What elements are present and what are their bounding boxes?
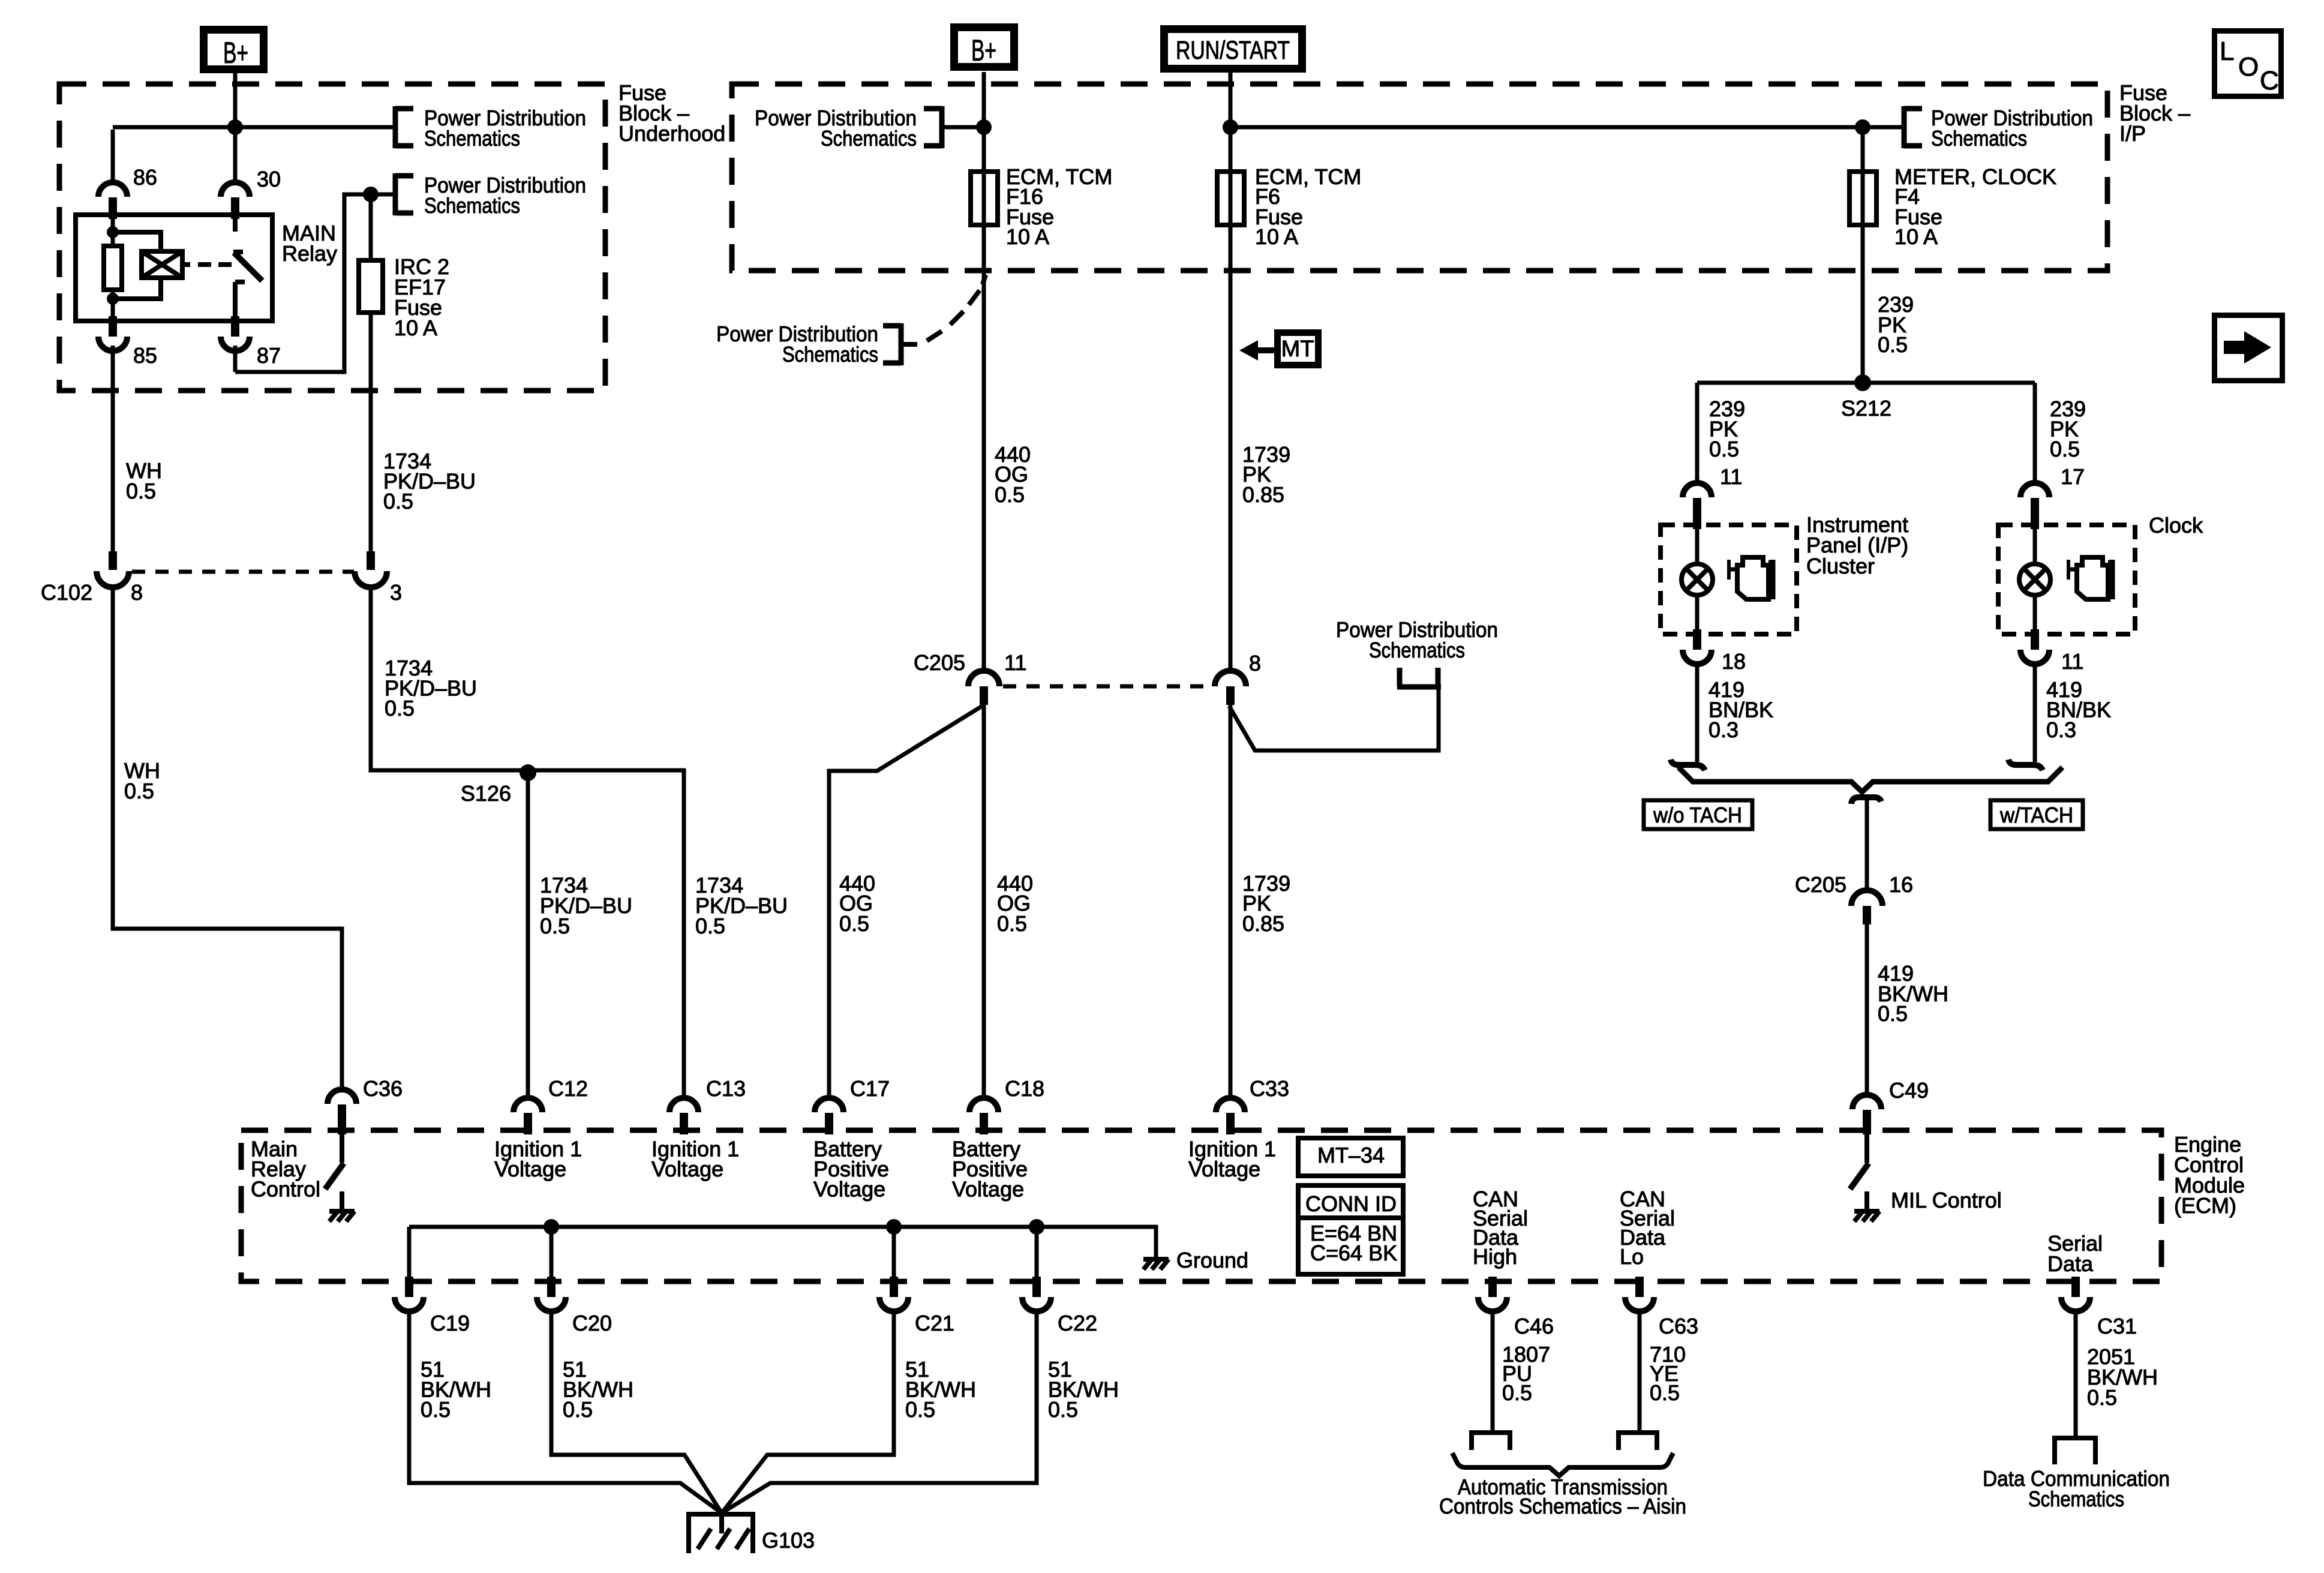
box MT-34 — [1298, 1138, 1403, 1176]
junction dot RUN/START — [1223, 119, 1238, 135]
terminal C18 — [969, 1098, 998, 1112]
terminal 11 into cluster — [1683, 483, 1712, 497]
svg-text:w/o TACH: w/o TACH — [1653, 803, 1742, 827]
svg-text:0.5: 0.5 — [1502, 1380, 1532, 1405]
power feed box B+ (I/P) — [954, 28, 1014, 67]
svg-text:Underhood: Underhood — [618, 121, 725, 146]
svg-text:Schematics: Schematics — [1369, 638, 1465, 662]
terminal C12 — [526, 1089, 530, 1098]
terminal 17 into clock — [2020, 483, 2049, 497]
svg-text:0.5: 0.5 — [1878, 1001, 1908, 1026]
bracket Power Distribution Schematics (down-facing) — [1397, 668, 1441, 687]
svg-text:C12: C12 — [548, 1076, 588, 1101]
relay coil — [111, 215, 115, 232]
wire to fuse F4 — [1861, 127, 1865, 383]
svg-text:Cluster: Cluster — [1806, 554, 1875, 578]
wire C102-8 down to ECM C36 — [113, 584, 342, 1089]
wire bracket to B+ wire — [942, 125, 984, 130]
svg-text:CONN ID: CONN ID — [1305, 1191, 1397, 1216]
terminal C36 — [328, 1089, 356, 1104]
bracket Power Distribution Schematics (underhood lower) — [393, 173, 398, 215]
wire S212 horizontal — [1697, 381, 2035, 385]
LOC reference box — [2215, 31, 2281, 97]
wire C205-11 to C18 — [982, 705, 986, 1098]
wire RUN/START through fuse F6 to C205-8 — [1229, 72, 1233, 671]
ground symbol (ECM internal) — [1143, 1259, 1169, 1269]
relay mechanical link dashes — [198, 262, 211, 267]
svg-text:0.5: 0.5 — [2087, 1385, 2117, 1410]
svg-text:Controls Schematics – Aisin: Controls Schematics – Aisin — [1439, 1494, 1686, 1518]
svg-text:Voltage: Voltage — [651, 1157, 723, 1181]
svg-text:11: 11 — [1720, 464, 1742, 489]
brace automatic transmission — [1452, 1453, 1673, 1476]
branch C19 — [407, 1227, 412, 1277]
wire brace to C205-16 — [1851, 797, 1881, 804]
wire 3 to S126 — [371, 584, 684, 1098]
bracket Power Distribution Schematics (below F16) — [899, 323, 904, 365]
wire C63 down — [1638, 1311, 1642, 1431]
engine icon MIL (cluster) — [1729, 557, 1773, 599]
box CONN ID — [1298, 1185, 1403, 1274]
svg-text:S126: S126 — [461, 781, 511, 806]
svg-text:B+: B+ — [971, 34, 996, 67]
svg-text:L: L — [2220, 37, 2234, 66]
switch MIL control — [1864, 1134, 1869, 1163]
svg-text:0.5: 0.5 — [1650, 1380, 1680, 1405]
svg-text:87: 87 — [257, 343, 281, 368]
junction dot IRC2 feed — [363, 187, 379, 202]
terminal C46 — [1488, 1277, 1497, 1297]
svg-text:0.85: 0.85 — [1242, 911, 1284, 936]
connector pin 3 — [367, 551, 375, 570]
connector C102 pin 8 — [109, 551, 117, 570]
splice S126 — [520, 764, 536, 781]
branch C20 — [550, 1227, 554, 1277]
svg-text:RUN/START: RUN/START — [1176, 36, 1290, 65]
wire C46 down — [1491, 1311, 1495, 1431]
svg-text:11: 11 — [2061, 649, 2083, 674]
svg-text:0.5: 0.5 — [905, 1397, 935, 1422]
svg-text:C21: C21 — [915, 1311, 954, 1335]
svg-text:86: 86 — [133, 165, 157, 190]
terminal C20 — [547, 1277, 556, 1297]
bracket Power Distribution Schematics (I/P right) — [1902, 106, 1907, 148]
svg-text:0.5: 0.5 — [1709, 437, 1739, 461]
svg-text:30: 30 — [257, 167, 281, 191]
svg-text:C18: C18 — [1005, 1076, 1044, 1101]
svg-text:C36: C36 — [363, 1076, 403, 1101]
svg-text:8: 8 — [131, 580, 143, 605]
next-page arrow box — [2215, 316, 2283, 381]
svg-text:Schematics: Schematics — [782, 342, 878, 367]
svg-text:17: 17 — [2061, 464, 2085, 489]
wire S212 to clock pin 17 — [2033, 383, 2037, 483]
svg-text:0.3: 0.3 — [1709, 718, 1739, 742]
wire 87 to IRC2 feed — [233, 346, 238, 372]
svg-text:w/TACH: w/TACH — [1999, 803, 2073, 827]
terminal 86 — [98, 182, 127, 197]
svg-text:B+: B+ — [223, 36, 248, 70]
svg-text:Schematics: Schematics — [424, 126, 520, 151]
terminal C21 — [890, 1277, 898, 1297]
svg-text:C102: C102 — [41, 580, 92, 605]
fuse F6 — [1217, 172, 1244, 225]
svg-text:C17: C17 — [850, 1076, 890, 1101]
wire to relay pin 86 — [111, 130, 115, 182]
ground bus inside ECM — [409, 1227, 1156, 1258]
svg-text:0.5: 0.5 — [124, 779, 154, 803]
terminal C31 — [2071, 1277, 2080, 1297]
continuation symbol C31 — [2055, 1438, 2095, 1464]
svg-text:0.5: 0.5 — [995, 482, 1025, 507]
terminal 85 — [109, 316, 117, 337]
wire clock 11 down — [2033, 664, 2037, 762]
svg-text:Schematics: Schematics — [2028, 1487, 2124, 1511]
svg-text:C13: C13 — [706, 1076, 746, 1101]
svg-text:10 A: 10 A — [1255, 224, 1298, 249]
connector body dashed line C102 — [132, 570, 354, 574]
connector C205 pin 11 — [968, 671, 999, 686]
svg-text:C46: C46 — [1514, 1314, 1554, 1338]
wire S212 to cluster pin 11 — [1695, 383, 1700, 483]
indicator lamp (cluster) — [1695, 528, 1700, 564]
terminal 30 — [221, 182, 250, 197]
wire B+ through fuse F16 to C205-11 — [982, 72, 986, 671]
connector C205 pin 8 — [1215, 671, 1246, 686]
terminal 87 — [231, 316, 239, 337]
wire C205-8 to C33 — [1229, 705, 1233, 1098]
svg-text:MT–34: MT–34 — [1317, 1143, 1385, 1167]
svg-text:C19: C19 — [430, 1311, 470, 1335]
svg-text:3: 3 — [390, 580, 402, 605]
svg-text:0.5: 0.5 — [695, 914, 725, 938]
terminal 18 out of cluster — [1693, 629, 1701, 650]
switch main relay control — [340, 1134, 344, 1163]
indicator lamp (clock) — [2033, 528, 2037, 564]
wire C22 to G103 — [722, 1311, 1037, 1513]
svg-text:O: O — [2238, 52, 2259, 82]
continuation symbol C46 — [1472, 1433, 1510, 1450]
svg-text:Voltage: Voltage — [1188, 1157, 1260, 1181]
merge brace w/o TACH - w/TACH — [1679, 767, 2062, 792]
junction dot B+ feed — [227, 119, 243, 135]
svg-text:Schematics: Schematics — [1931, 126, 2027, 151]
svg-text:High: High — [1473, 1244, 1517, 1269]
power feed box B+ (underhood) — [204, 30, 264, 70]
svg-text:C205: C205 — [914, 650, 965, 675]
junction dot B+ I/P — [976, 119, 992, 135]
terminal C17 — [815, 1098, 843, 1112]
svg-text:8: 8 — [1249, 651, 1261, 676]
wire branch C205-8 to bracket — [1229, 687, 1439, 751]
junction dot F4 feed — [1855, 119, 1870, 135]
wire C21 to G103 — [722, 1311, 894, 1513]
svg-text:Ground: Ground — [1176, 1248, 1248, 1272]
box w/o TACH — [1644, 800, 1752, 829]
svg-text:MT: MT — [1281, 337, 1314, 362]
svg-text:C33: C33 — [1250, 1076, 1289, 1101]
svg-text:Control: Control — [251, 1177, 320, 1202]
wire C19 to G103 — [409, 1311, 722, 1513]
wire B+ to relay pin 30 — [233, 73, 238, 182]
dashed box Fuse Block - Underhood — [59, 84, 605, 391]
arrow MT (manual transmission) — [1278, 333, 1319, 365]
terminal C63 — [1635, 1277, 1644, 1297]
branch C21 — [892, 1227, 896, 1277]
svg-text:Clock: Clock — [2149, 513, 2203, 538]
terminal C13 — [669, 1098, 698, 1112]
ground G103 — [689, 1514, 753, 1553]
svg-text:Schematics: Schematics — [821, 126, 917, 151]
svg-text:Data: Data — [2047, 1251, 2094, 1276]
svg-text:18: 18 — [1722, 649, 1746, 674]
fuse F4 — [1849, 172, 1876, 225]
svg-text:0.3: 0.3 — [2046, 718, 2076, 742]
fuse IRC 2 EF17 — [369, 194, 373, 260]
svg-text:C49: C49 — [1889, 1078, 1929, 1103]
svg-text:0.5: 0.5 — [1878, 332, 1908, 357]
svg-text:0.5: 0.5 — [1048, 1397, 1078, 1422]
svg-text:C31: C31 — [2097, 1314, 2137, 1338]
svg-text:0.85: 0.85 — [1242, 482, 1284, 507]
relay switch — [233, 215, 238, 232]
wire C20 to G103 — [551, 1311, 722, 1513]
terminal C22 — [1032, 1277, 1041, 1297]
svg-text:Lo: Lo — [1620, 1244, 1644, 1269]
relay suppression element — [113, 232, 161, 251]
svg-text:0.5: 0.5 — [997, 911, 1027, 936]
terminal C49 — [1852, 1095, 1881, 1109]
bracket Power Distribution Schematics (underhood top) — [393, 106, 398, 148]
svg-text:S212: S212 — [1841, 396, 1891, 421]
terminal 11 out of clock — [2031, 629, 2039, 650]
wire RUN/START junction to I/P right — [1230, 125, 1904, 130]
svg-text:Schematics: Schematics — [424, 193, 520, 218]
wire branch C205-11 to C17 — [829, 706, 982, 1098]
svg-text:Voltage: Voltage — [813, 1177, 885, 1202]
svg-text:0.5: 0.5 — [126, 479, 156, 503]
svg-text:85: 85 — [133, 343, 157, 368]
svg-text:0.5: 0.5 — [839, 911, 869, 936]
engine icon MIL (clock) — [2068, 557, 2112, 599]
fuse F16 — [971, 172, 998, 225]
dashed box Fuse Block - I/P — [732, 84, 2107, 271]
connector body dashed line C205 — [1003, 685, 1209, 689]
svg-text:10 A: 10 A — [1894, 224, 1938, 249]
dashed box Engine Control Module ECM — [241, 1130, 2161, 1281]
svg-text:Relay: Relay — [282, 241, 337, 266]
relay box MAIN Relay — [76, 215, 272, 321]
dashed box Clock — [1998, 525, 2135, 634]
branch C22 — [1035, 1227, 1039, 1277]
svg-text:C: C — [2260, 66, 2279, 95]
power feed box RUN/START — [1164, 29, 1302, 69]
svg-text:C=64 BK: C=64 BK — [1310, 1241, 1397, 1265]
wire S126 to C12 — [526, 773, 530, 1098]
svg-text:0.5: 0.5 — [385, 696, 415, 721]
wire C31 down — [2074, 1311, 2078, 1436]
svg-text:0.5: 0.5 — [563, 1397, 593, 1422]
svg-text:Voltage: Voltage — [494, 1157, 566, 1181]
svg-text:0.5: 0.5 — [540, 914, 570, 938]
svg-text:Voltage: Voltage — [952, 1177, 1024, 1202]
dashed box Instrument Panel Cluster — [1661, 525, 1797, 634]
svg-text:C205: C205 — [1795, 872, 1846, 897]
terminal C19 — [405, 1277, 413, 1297]
splice S212 — [1854, 374, 1871, 391]
svg-text:10 A: 10 A — [394, 316, 437, 340]
wire C205-16 to C49 — [1865, 924, 1869, 1095]
svg-text:I/P: I/P — [2119, 121, 2146, 146]
svg-text:0.5: 0.5 — [383, 489, 413, 514]
svg-text:C22: C22 — [1058, 1311, 1097, 1335]
terminal C33 — [1216, 1098, 1245, 1112]
svg-text:0.5: 0.5 — [2050, 437, 2080, 461]
continuation symbol C63 — [1619, 1433, 1657, 1450]
wire cluster 18 down — [1695, 664, 1700, 762]
box w/TACH — [1990, 800, 2083, 829]
svg-text:(ECM): (ECM) — [2174, 1193, 2236, 1218]
svg-text:0.5: 0.5 — [421, 1397, 451, 1422]
svg-text:G103: G103 — [762, 1528, 815, 1553]
svg-text:C63: C63 — [1659, 1314, 1698, 1338]
wire junction to Power Distribution bracket — [113, 125, 395, 130]
svg-text:C20: C20 — [572, 1311, 612, 1335]
svg-text:16: 16 — [1889, 872, 1913, 897]
connector C205 pin 16 — [1851, 890, 1882, 906]
wire 85 to C102 — [111, 346, 115, 551]
svg-text:10 A: 10 A — [1006, 224, 1049, 249]
svg-text:MIL Control: MIL Control — [1891, 1188, 2002, 1212]
bracket Power Distribution Schematics (I/P left) — [939, 106, 945, 148]
svg-text:11: 11 — [1004, 650, 1026, 675]
dashed link to F16 wire — [901, 275, 986, 344]
